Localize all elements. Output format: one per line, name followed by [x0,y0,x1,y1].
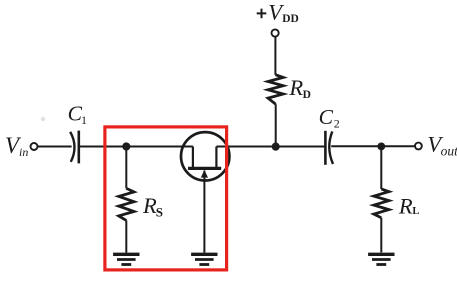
svg-text:1: 1 [81,113,87,127]
svg-text:R: R [288,75,303,100]
svg-text:out: out [441,143,457,158]
svg-text:D: D [303,89,311,101]
svg-text:L: L [412,206,419,217]
svg-text:S: S [156,205,163,220]
svg-text:C: C [319,105,334,129]
svg-text:R: R [142,193,157,218]
svg-text:in: in [19,145,28,159]
svg-text:2: 2 [334,117,340,131]
svg-text:R: R [398,193,413,218]
svg-text:DD: DD [282,13,299,25]
